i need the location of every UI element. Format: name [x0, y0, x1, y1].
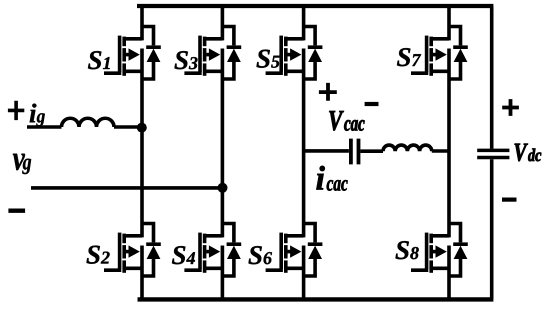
wire: bottom DC rail [138, 297, 494, 301]
node: leg2 midpoint junction [218, 183, 228, 193]
label S7 [397, 48, 421, 66]
minus sign of Vdc [502, 198, 517, 202]
switch S3 (MOSFET + body diode) [184, 27, 241, 80]
switch S1 (MOSFET + body diode) [104, 27, 161, 80]
wire: leg 1 (S1/S2 phase leg) [140, 6, 144, 299]
label Vdc (dc-link voltage) [515, 144, 542, 162]
capacitor Cdc (dc-link capacitor) [477, 150, 509, 157]
minus sign of Vcac [365, 102, 379, 106]
switch S8 (MOSFET + body diode) [411, 224, 468, 277]
label S5 [257, 50, 280, 68]
label ig (grid current) [30, 104, 45, 127]
wire: leg 3 (S5/S6 phase leg) [302, 6, 306, 299]
label vg (grid voltage) [13, 154, 31, 174]
wire: inductor Lg to leg1 midpoint [114, 125, 142, 129]
wire: leg3 midpoint to capacitor Cac [304, 149, 349, 153]
label Vcac (ac capacitor voltage) [329, 111, 364, 131]
wire: leg 2 (S3/S4 phase leg) [221, 6, 225, 299]
label S8 [396, 241, 419, 259]
wire: inductor Lac to leg4 midpoint [432, 149, 449, 153]
label S1 [88, 51, 110, 69]
label S3 [175, 51, 198, 69]
wire: leg 4 (S7/S8 phase leg) [447, 6, 451, 299]
label S4 [172, 246, 195, 264]
switch S6 (MOSFET + body diode) [266, 224, 323, 277]
wire: dc-link capacitor branch [490, 6, 494, 299]
plus sign of Vcac [319, 83, 337, 101]
capacitor Cac (series ac capacitor) [351, 139, 359, 165]
wire: top DC rail [137, 4, 493, 8]
label S6 [249, 246, 273, 264]
label S2 [87, 246, 110, 264]
wire: vg return to leg2 midpoint [31, 186, 222, 190]
inductor Lac (series ac inductor) [383, 145, 432, 151]
switch S4 (MOSFET + body diode) [184, 224, 241, 277]
inductor Lg (grid-side inductor) [62, 118, 115, 127]
wire: capacitor Cac to inductor Lac [360, 149, 383, 153]
switch S5 (MOSFET + body diode) [266, 27, 323, 80]
plus sign of grid source [8, 101, 24, 120]
switch S2 (MOSFET + body diode) [104, 224, 161, 277]
plus sign of Vdc [502, 99, 519, 116]
minus sign of grid source [8, 208, 25, 212]
node: leg1 midpoint junction [137, 123, 147, 133]
wire: ig input segment [27, 125, 62, 129]
switch S7 (MOSFET + body diode) [411, 27, 468, 80]
label icac (ac branch current) [316, 166, 347, 191]
